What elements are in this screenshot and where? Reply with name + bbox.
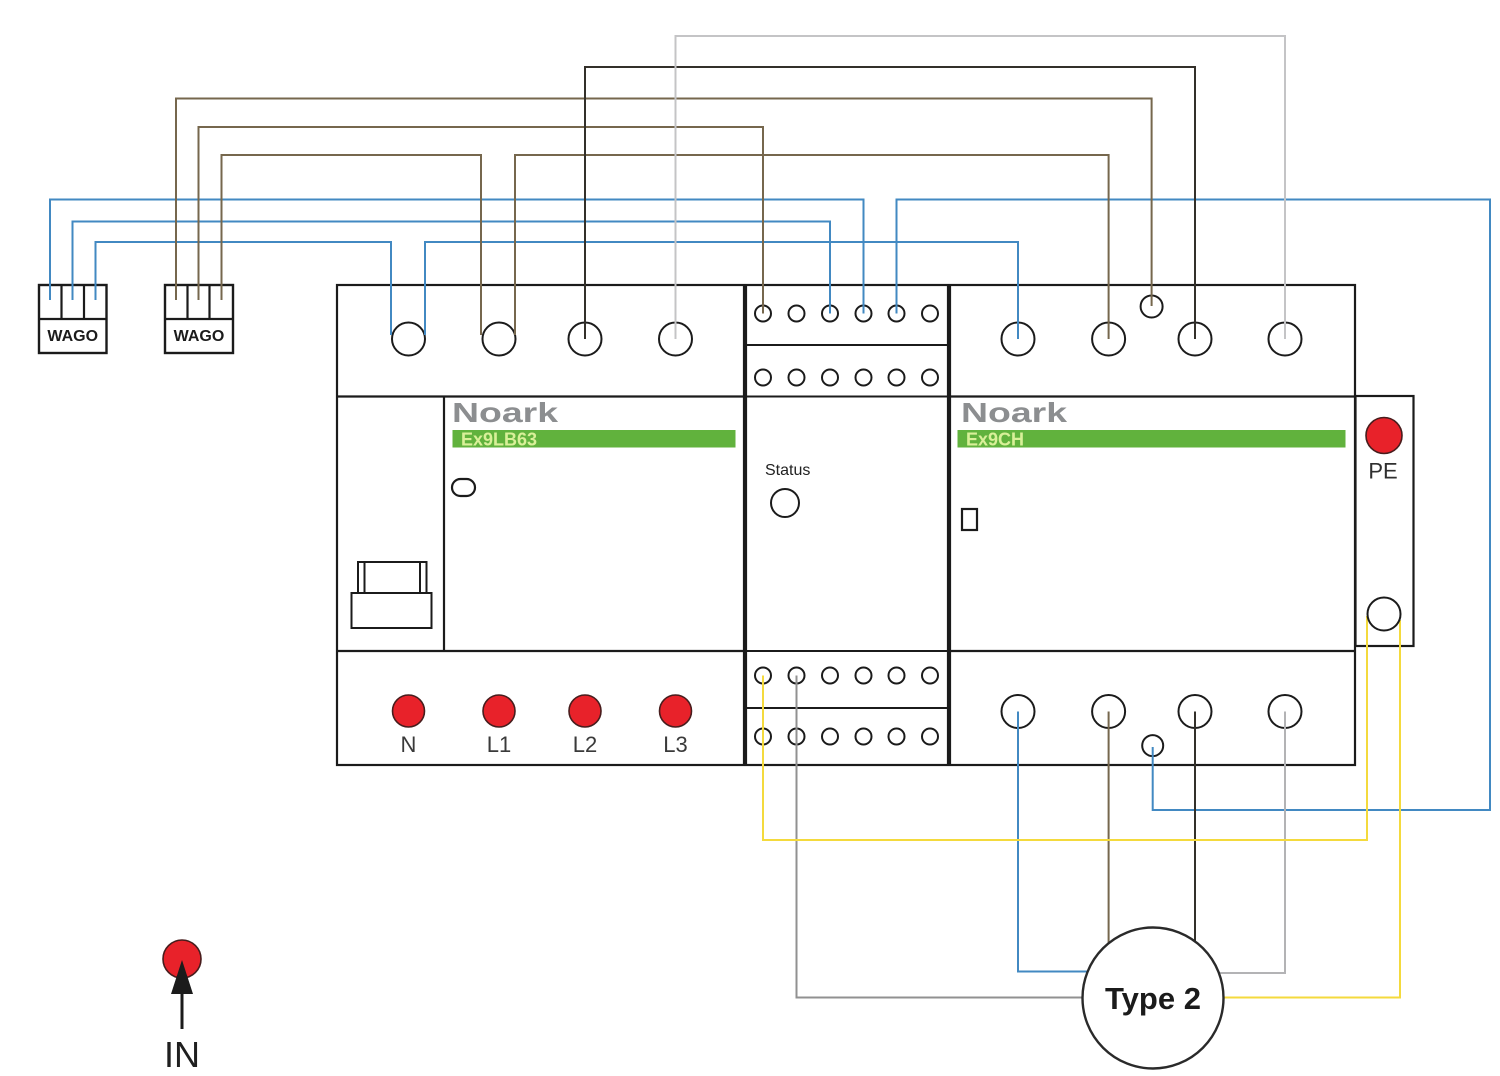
relay module enclosure <box>746 285 948 765</box>
Ex9CH bottom terminal 4 <box>1269 695 1302 728</box>
Ex9LB63 switch panel divider <box>443 397 445 652</box>
wire blue WAGO1-1 to relay terminal 4 <box>50 200 864 314</box>
Ex9LB63 L2 indicator (red) <box>569 695 601 727</box>
Ex9LB63 indicator window <box>452 479 475 496</box>
wire gray relay bottom terminal 2 to Type 2 plug <box>797 676 1153 998</box>
Ex9LB63 top terminal 3 <box>569 323 602 356</box>
Ex9CH auxiliary terminal top <box>1141 296 1163 318</box>
Status LED <box>771 489 799 517</box>
wire brown WAGO2-3 to Ex9LB63 terminal 2 <box>222 155 482 335</box>
Ex9LB63 top terminal 2 <box>483 323 516 356</box>
relay divider under top row 1 <box>746 344 948 346</box>
relay divider above bottom row 1 <box>746 650 948 652</box>
svg-text:N: N <box>401 732 417 757</box>
Ex9CH top terminal 2 <box>1092 323 1125 356</box>
wire brown WAGO2-1 to Ex9CH top auxiliary terminal <box>176 99 1152 307</box>
svg-text:Ex9LB63: Ex9LB63 <box>461 430 537 450</box>
svg-text:L3: L3 <box>663 732 687 757</box>
Ex9CH lower section divider <box>950 650 1355 652</box>
svg-text:L2: L2 <box>573 732 597 757</box>
Ex9CH model label bar <box>958 430 1346 450</box>
Ex9LB63 model label bar <box>453 430 736 450</box>
svg-text:Noark: Noark <box>961 397 1068 428</box>
wire blue WAGO1-3 to Ex9LB63 terminal 1 <box>96 242 392 335</box>
wire gray Ex9CH bottom terminal 4 to Type 2 plug <box>1152 712 1285 974</box>
Ex9CH top terminal 4 <box>1269 323 1302 356</box>
PE terminal strip enclosure <box>1356 396 1414 646</box>
Ex9LB63 L1 indicator (red) <box>483 695 515 727</box>
Ex9LB63 lower section divider <box>337 650 744 652</box>
svg-text:WAGO: WAGO <box>47 328 98 345</box>
svg-text:L1: L1 <box>487 732 511 757</box>
Ex9CH indicator window <box>962 509 977 530</box>
contactor Ex9CH enclosure <box>950 285 1355 765</box>
IN feed indicator (red) <box>163 940 201 978</box>
Ex9CH bottom terminal 1 <box>1002 695 1035 728</box>
svg-text:WAGO: WAGO <box>174 328 225 345</box>
Ex9CH bottom terminal 2 <box>1092 695 1125 728</box>
Ex9LB63 N indicator (red) <box>393 695 425 727</box>
wire blue WAGO1-2 to relay terminal 3 <box>73 222 831 314</box>
Ex9LB63 upper section divider <box>337 395 744 397</box>
Type 2 connector <box>1083 928 1224 1069</box>
Ex9CH upper section divider <box>950 395 1355 397</box>
relay divider between bottom rows <box>746 707 948 709</box>
svg-text:Ex9CH: Ex9CH <box>966 430 1024 450</box>
Ex9CH bottom terminal 3 <box>1179 695 1212 728</box>
Ex9CH top terminal 3 <box>1179 323 1212 356</box>
Ex9LB63 top terminal 4 <box>659 323 692 356</box>
wire brown Ex9CH bottom terminal 2 to Type 2 plug <box>1108 712 1110 1001</box>
svg-text:Status: Status <box>765 462 810 479</box>
relay bottom terminal row 1 <box>755 668 938 684</box>
WAGO terminal block X2 <box>165 285 233 353</box>
IN arrow <box>171 960 193 1029</box>
wire yellow relay bottom terminal 1 to PE earth terminal <box>763 616 1367 840</box>
wire yellow PE earth terminal to Type 2 plug <box>1152 620 1400 998</box>
relay bottom terminal row 2 <box>755 729 938 745</box>
Ex9LB63 L3 indicator (red) <box>660 695 692 727</box>
relay divider under top row 2 <box>746 396 948 398</box>
PE indicator (red) <box>1366 418 1402 454</box>
WAGO terminal block X1 <box>39 285 107 353</box>
wire brown WAGO2-2 to relay terminal 1 <box>199 127 764 314</box>
svg-text:Noark: Noark <box>452 397 559 428</box>
Ex9LB63 top terminal 1 <box>392 323 425 356</box>
relay top terminal row 1 <box>755 306 938 322</box>
wire gray Ex9LB63 terminal 4 to Ex9CH terminal 4 <box>676 36 1286 339</box>
Ex9LB63 toggle switch <box>352 562 432 628</box>
svg-text:Type 2: Type 2 <box>1105 981 1201 1016</box>
relay top terminal row 2 <box>755 370 938 386</box>
wire blue Ex9LB63 terminal 1 to Ex9CH terminal 1 <box>425 242 1018 339</box>
wire blue Ex9CH bottom terminal 1 to Type 2 plug <box>1018 712 1152 972</box>
wire black Ex9LB63 terminal 3 to Ex9CH terminal 3 <box>585 67 1195 339</box>
PE earth terminal <box>1368 598 1401 631</box>
Ex9CH top terminal 1 <box>1002 323 1035 356</box>
wire black Ex9CH bottom terminal 3 to Type 2 plug <box>1194 712 1196 1001</box>
svg-text:PE: PE <box>1368 459 1397 484</box>
wire brown Ex9LB63 terminal 2 to Ex9CH terminal 2 <box>515 155 1109 339</box>
Ex9CH auxiliary terminal bottom <box>1142 735 1163 756</box>
wire blue relay terminal 5 to Ex9CH bottom auxiliary terminal <box>897 200 1491 811</box>
RCD Ex9LB63 enclosure <box>337 285 744 765</box>
svg-text:IN: IN <box>164 1034 200 1075</box>
